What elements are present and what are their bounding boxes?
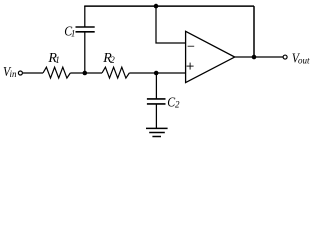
- wire node A up to C1: [84, 32, 86, 73]
- label Vout: [292, 52, 310, 67]
- svg-text:2: 2: [175, 100, 180, 110]
- top feedback rail: [84, 5, 254, 7]
- wire C2 to ground: [155, 104, 157, 128]
- svg-text:1: 1: [55, 55, 60, 65]
- wire node D to output terminal: [254, 56, 283, 58]
- wire C1 top to top rail: [84, 6, 86, 27]
- ground: [146, 128, 168, 136]
- label C2: [167, 95, 180, 110]
- wire node B to op-amp + input: [156, 72, 185, 74]
- wire R2 to node B: [129, 72, 156, 74]
- resistor R2: [102, 67, 129, 78]
- node D junction dot: [252, 55, 257, 60]
- node A junction dot: [83, 71, 88, 76]
- svg-text:1: 1: [71, 28, 76, 38]
- svg-text:in: in: [10, 69, 18, 79]
- input terminal Vin: [18, 71, 22, 75]
- wire R1 to node A: [70, 72, 85, 74]
- op-amp + input sign: [187, 63, 194, 70]
- node B junction dot: [154, 71, 159, 76]
- node C junction dot on top rail: [154, 4, 159, 9]
- wire node B down to C2: [155, 73, 157, 99]
- resistor R1: [43, 67, 70, 78]
- label R2: [102, 51, 115, 66]
- capacitor C1: [76, 27, 95, 32]
- op-amp - input sign: [188, 45, 195, 47]
- op-amp U1: [186, 31, 235, 82]
- wire top rail down to output node: [253, 6, 255, 57]
- wire op-amp output to node D: [235, 56, 254, 58]
- label Vin: [3, 65, 17, 80]
- capacitor C2: [147, 99, 166, 104]
- label C1: [64, 24, 75, 39]
- svg-text:out: out: [298, 56, 310, 66]
- svg-text:2: 2: [110, 55, 115, 65]
- wire node A to R2: [85, 72, 102, 74]
- wire node C down to op-amp - input: [156, 6, 186, 43]
- wire Vin terminal to R1: [23, 72, 43, 74]
- output terminal Vout: [283, 55, 287, 59]
- label R1: [47, 51, 59, 66]
